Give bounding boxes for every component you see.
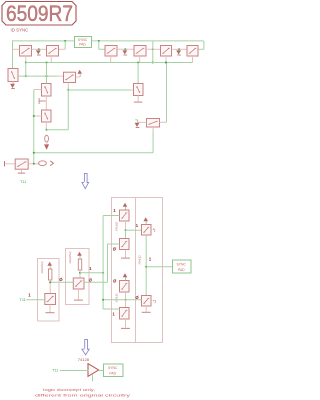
transistor R1 — [142, 225, 152, 236]
ground drop gnd3 — [178, 48, 180, 50]
sync pad P1 — [75, 37, 92, 48]
ground inv1 — [78, 289, 80, 300]
driver block divider — [135, 198, 137, 343]
ground under R2 — [145, 306, 147, 312]
sync pad P3 — [104, 364, 124, 377]
svg-text:1: 1 — [28, 293, 31, 298]
transistor Qc vertical — [42, 110, 52, 122]
down arrow under E1 — [46, 143, 48, 146]
pin T1-T2 stem — [125, 221, 127, 230]
svg-text:T11: T11 — [20, 298, 26, 302]
node wire75-x46 — [46, 75, 48, 77]
wire hook at Qx gate — [137, 120, 139, 123]
vcc arrow inv1 — [79, 256, 81, 259]
svg-text:driver: driver — [115, 222, 119, 232]
wire buffer output — [99, 370, 103, 372]
vcc arrow R1 — [145, 221, 147, 224]
wire inv1 out2 — [84, 281, 108, 283]
pin buffer bottom — [92, 375, 94, 382]
transistor Qt — [15, 159, 28, 169]
transistor T1 — [120, 210, 130, 221]
wire x107 to T2 — [108, 243, 120, 245]
node rail1-x64.7 — [64, 40, 66, 42]
pin T left — [5, 163, 16, 165]
vcc arrow T3 — [125, 277, 127, 280]
wire gate net x33.3 vertical — [33, 90, 35, 164]
svg-text:PAD: PAD — [79, 42, 86, 46]
wire to sync pad P2 — [146, 266, 172, 268]
pin Q3 bottom — [110, 56, 112, 63]
wire rail2 horizontal — [26, 62, 193, 64]
down arrow at Qx gate — [135, 123, 138, 126]
node rail2-x46 — [46, 62, 48, 64]
transistor Q5 — [161, 46, 172, 57]
ground inv2 — [49, 305, 51, 313]
pin T3 bottom — [125, 292, 127, 300]
wire T1T2 node to R1 — [126, 229, 142, 231]
wire y89.5 to Qd — [68, 89, 130, 91]
wire y152.3 horizontal — [34, 152, 153, 154]
pin Q6 bottom — [192, 56, 194, 63]
port tick input — [4, 161, 6, 166]
ground under Qt — [21, 169, 23, 173]
wire Qc node to x67.8 — [47, 129, 69, 131]
svg-text:Ø: Ø — [135, 295, 139, 300]
svg-text:74128: 74128 — [78, 357, 90, 362]
wire buffer input — [60, 370, 89, 372]
buffer U1 74128 — [88, 364, 99, 377]
title block 6509R7 — [2, 2, 76, 26]
transistor Qx — [147, 119, 160, 128]
pad ellipse marker E1 — [45, 135, 49, 142]
resistor RL1 — [78, 259, 81, 270]
svg-text:1: 1 — [112, 311, 115, 316]
transistor Q1 — [20, 46, 32, 57]
svg-text:SYNC: SYNC — [108, 366, 118, 370]
wire Q2 right to rail1 — [64, 41, 66, 49]
transistor Q3 — [105, 46, 117, 57]
transistor R2 — [142, 296, 152, 307]
transistor QI1 — [73, 278, 84, 289]
svg-text:*): *) — [153, 228, 156, 232]
wire x107 up — [107, 244, 109, 282]
blue continuation arrow A2 — [85, 340, 88, 350]
transistor QI2 — [45, 294, 56, 305]
wire x137.6 rail2 to Qd — [137, 63, 139, 84]
wire x102.6 vertical — [102, 216, 104, 310]
svg-text:Ø: Ø — [59, 277, 63, 282]
svg-text:1: 1 — [113, 208, 116, 213]
ellipse marker E2 — [39, 161, 47, 166]
inverter cell 2 outline — [38, 259, 60, 322]
transistor Qb vertical — [42, 84, 52, 97]
svg-text:1: 1 — [136, 223, 139, 228]
wire Qm right + vcc arrow — [76, 76, 81, 78]
inverter cell 1 outline — [66, 249, 90, 305]
ground under Qd — [137, 96, 139, 102]
wire Q1-Q2 — [32, 48, 47, 50]
wire y299.3 to R2 — [103, 299, 141, 301]
transistor Q6 — [187, 46, 198, 57]
wire x152 rail1 to rail2 — [152, 41, 154, 63]
wire x67.8 down to y129.3 — [67, 90, 69, 130]
svg-text:different from original circui: different from original circuitry — [35, 394, 130, 398]
vcc arrow T1 — [125, 207, 127, 210]
svg-text:Ø: Ø — [113, 278, 117, 283]
wire x166 rail2 down to Qx — [166, 63, 168, 123]
pin Q4 bottom — [139, 56, 141, 63]
pin Qb bottom — [45, 96, 47, 110]
svg-text:driver: driver — [115, 294, 119, 304]
svg-text:1: 1 — [149, 257, 152, 262]
pin Q2 bottom — [50, 56, 52, 63]
svg-text:1: 1 — [89, 266, 92, 271]
sync pad P2 — [173, 260, 192, 273]
wire Q4 right to x152 — [146, 48, 153, 50]
ground under T4 — [125, 319, 127, 328]
gate bar mark — [38, 98, 40, 104]
svg-text:*1: *1 — [153, 300, 157, 304]
svg-text:Ø: Ø — [113, 247, 117, 252]
wire inv1out to T1 — [103, 215, 119, 217]
transistor T3 — [120, 281, 130, 293]
transistor Qd vertical — [134, 84, 144, 96]
wire left vertical rail1 to Qa — [12, 41, 14, 69]
pin Qc bottom — [45, 122, 47, 130]
svg-text:T11: T11 — [20, 180, 26, 184]
wire x152 to Q5 — [153, 48, 161, 50]
svg-text:driver: driver — [138, 256, 142, 266]
wire drop x98.3 to Q3 — [98, 41, 100, 49]
wire Q1 bottom to wire75 — [25, 63, 27, 77]
pin Qx bottom — [152, 127, 154, 132]
wire Q3-Q4 — [117, 48, 134, 50]
wire to T4 left — [103, 308, 119, 310]
ground drop gnd2 — [124, 48, 126, 50]
svg-text:SYNC: SYNC — [78, 38, 88, 42]
pin Q5 bottom — [165, 56, 167, 63]
wire rail1 horizontal — [12, 40, 204, 42]
transistor Qm — [64, 72, 76, 82]
transistor Q4 — [134, 46, 146, 57]
wire Q5-Q6 — [172, 48, 188, 50]
svg-text:SYNC: SYNC — [177, 262, 187, 266]
svg-text:logic #concept only,: logic #concept only, — [43, 388, 95, 392]
pin RL2 bottom — [49, 280, 51, 294]
ground under T2 — [125, 250, 127, 258]
ground arrow under Qa — [12, 82, 14, 85]
ground drop gnd1 — [38, 48, 40, 50]
node rail1-x90 — [90, 40, 92, 42]
pin R1 bottom long — [145, 235, 147, 296]
wire inv1 input — [50, 281, 73, 283]
wire inv2 input — [26, 299, 45, 301]
pin Qb left gate — [34, 89, 42, 91]
transistor Q2 — [47, 46, 59, 57]
wire x46 rail2 to Qb top — [46, 63, 48, 84]
transistor T4 — [120, 308, 130, 320]
svg-text:Inverter: Inverter — [68, 252, 72, 265]
arrow right marker — [50, 161, 53, 166]
node rail1-x98 — [98, 40, 100, 42]
svg-text:PAD: PAD — [178, 268, 185, 272]
pin Qx left — [138, 121, 147, 123]
pin Qt right — [28, 163, 39, 165]
vcc arrow inv2 — [49, 266, 51, 269]
wire rail1 right corner down to Q6 — [203, 41, 205, 49]
pin Q1 bottom — [25, 56, 27, 63]
svg-text:PAD: PAD — [109, 371, 116, 375]
svg-text:6509R7: 6509R7 — [6, 1, 73, 26]
node rail2-x137.6 — [137, 62, 139, 64]
svg-text:T11: T11 — [52, 369, 58, 373]
driver block outline — [112, 198, 163, 343]
resistor RL2 — [49, 269, 52, 280]
pin T4 top — [125, 300, 127, 308]
pin Qx right — [160, 121, 167, 123]
svg-text:Inverter: Inverter — [40, 262, 44, 275]
wire inv1 out — [80, 272, 103, 274]
transistor Qa vertical — [8, 69, 18, 82]
transistor T2 — [120, 239, 130, 250]
blue continuation arrow A1 — [84, 174, 87, 184]
svg-text:ID SYNC: ID SYNC — [11, 27, 29, 32]
pin Q1 left — [12, 48, 20, 50]
pin Qm bottom — [67, 83, 69, 87]
wire Qa right along y75.6 — [18, 75, 58, 77]
pin RL1 bottom — [79, 270, 81, 278]
pin Qc left gate — [34, 115, 42, 117]
